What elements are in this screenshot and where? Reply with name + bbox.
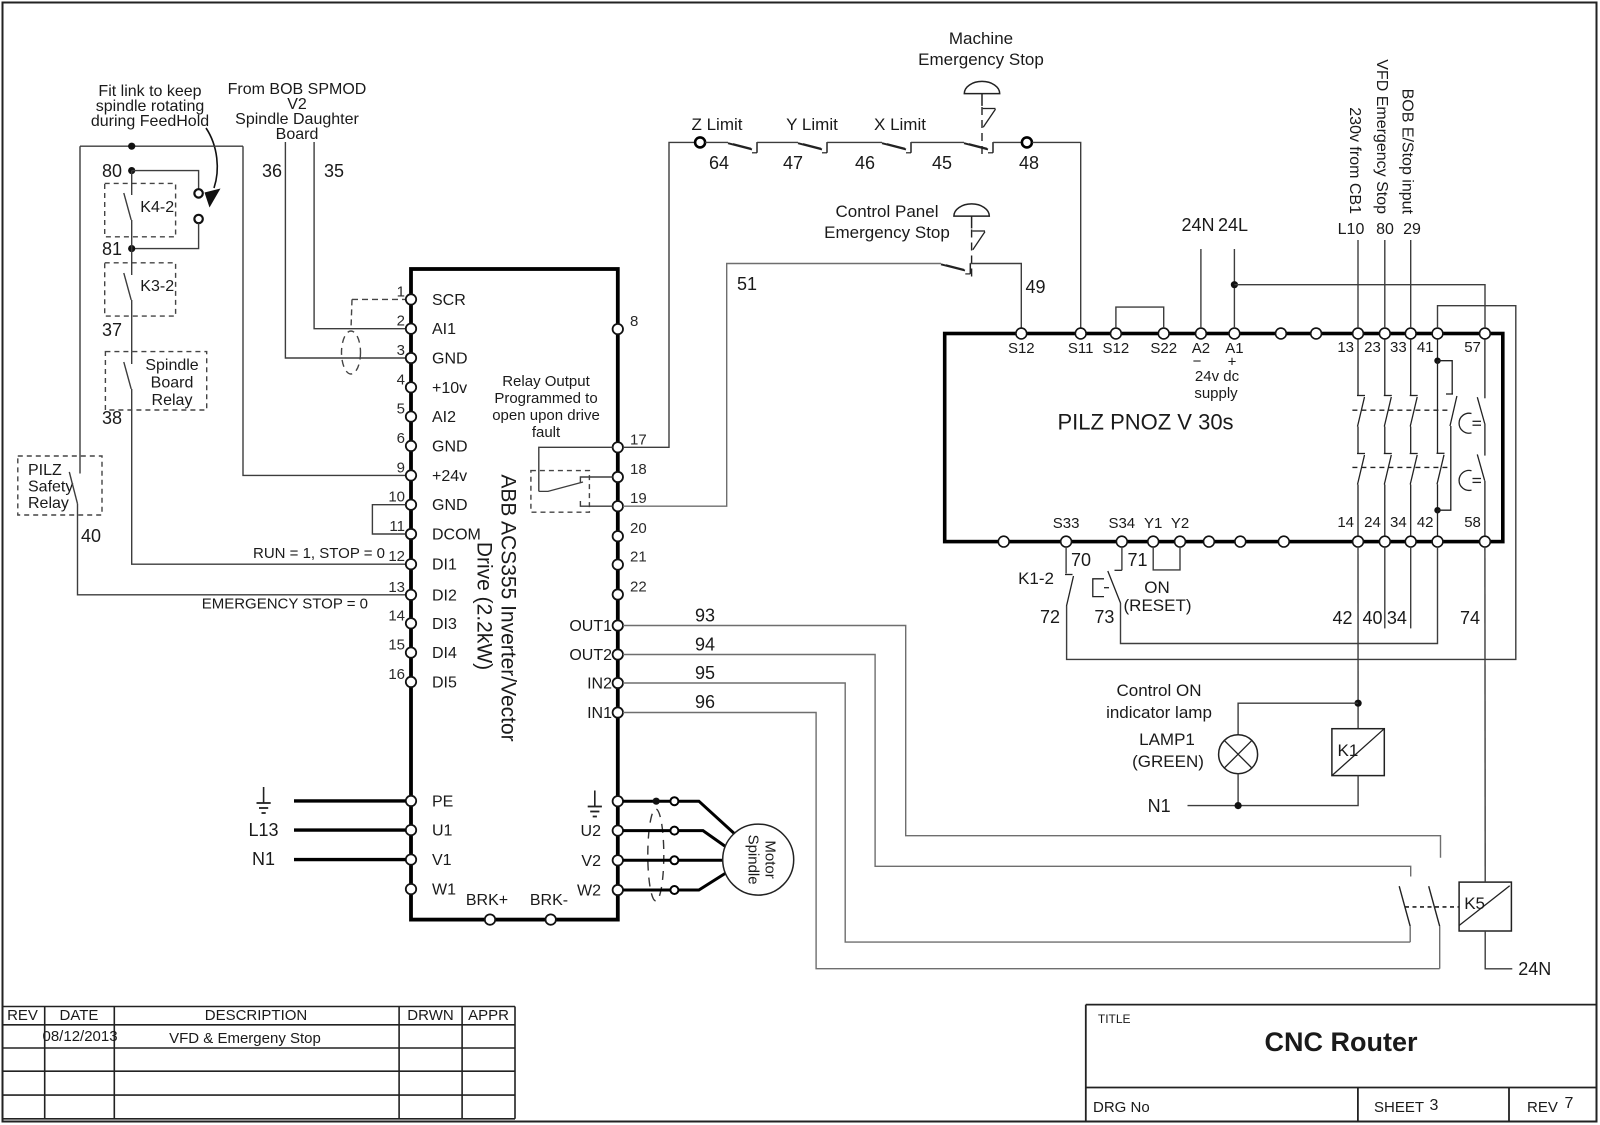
wire pin18 fixed contact xyxy=(580,477,612,482)
wire K5 to 24N xyxy=(1485,931,1512,969)
terminal unused bottom xyxy=(1235,536,1246,547)
wire terminal 14 to K1 xyxy=(1357,547,1359,729)
svg-text:+10v: +10v xyxy=(432,380,467,397)
svg-text:K3-2: K3-2 xyxy=(140,278,174,295)
svg-text:3: 3 xyxy=(397,342,405,359)
svg-text:AI1: AI1 xyxy=(432,321,456,338)
lamp LAMP1 xyxy=(1219,735,1258,774)
svg-text:21: 21 xyxy=(630,549,647,566)
relay contact K4-2 box xyxy=(105,183,176,236)
relay contact Spindle Board Relay box xyxy=(105,352,206,410)
svg-text:Drive (2.2kW): Drive (2.2kW) xyxy=(472,542,495,670)
wire PE2 to motor junction xyxy=(623,800,671,803)
svg-text:24v dc: 24v dc xyxy=(1195,368,1240,385)
svg-text:Relay: Relay xyxy=(152,392,193,409)
terminal 23 xyxy=(1379,328,1390,339)
terminal S12 xyxy=(1111,328,1122,339)
connector ring ground xyxy=(670,797,678,805)
svg-text:V2: V2 xyxy=(581,853,601,870)
svg-text:94: 94 xyxy=(695,635,715,655)
terminal Y2 xyxy=(1175,536,1186,547)
svg-text:PE: PE xyxy=(432,793,453,810)
svg-text:BRK-: BRK- xyxy=(530,892,568,909)
contact machine e-stop 45 xyxy=(964,143,988,149)
svg-text:40: 40 xyxy=(1362,608,1382,628)
wire terminal 34 stub xyxy=(1410,547,1412,629)
svg-text:ABB ACS355 Inverter/Vector: ABB ACS355 Inverter/Vector xyxy=(497,474,520,741)
wire terminal 24 stub xyxy=(1384,547,1386,629)
svg-text:24N: 24N xyxy=(1181,215,1214,235)
pin PE2 ground xyxy=(613,796,623,806)
machine e-stop stem xyxy=(981,94,983,106)
svg-text:22: 22 xyxy=(630,579,647,596)
svg-text:DI1: DI1 xyxy=(432,557,457,574)
svg-text:Y2: Y2 xyxy=(1171,515,1189,532)
contact K5 left xyxy=(1399,886,1410,926)
svg-text:73: 73 xyxy=(1094,607,1114,627)
pin IN2 xyxy=(613,678,623,688)
wire 35 to AI1 pin2 xyxy=(314,142,406,329)
wire N1 to V1 xyxy=(294,858,406,861)
svg-text:64: 64 xyxy=(709,153,729,173)
svg-text:18: 18 xyxy=(630,461,647,478)
wire 73 to terminal 42 xyxy=(1121,547,1438,644)
svg-text:1: 1 xyxy=(397,283,405,300)
pin 15 DI4 xyxy=(406,647,416,657)
wire 29 to 33 xyxy=(1410,240,1412,328)
pin 9 +24v xyxy=(406,470,416,480)
svg-text:K1-2: K1-2 xyxy=(1018,569,1054,588)
pushbutton ON RESET actuator xyxy=(1093,579,1104,597)
contact Z limit xyxy=(705,141,728,143)
svg-text:DCOM: DCOM xyxy=(432,527,481,544)
svg-text:SCR: SCR xyxy=(432,292,466,309)
node 81 xyxy=(128,245,135,252)
svg-text:DI2: DI2 xyxy=(432,587,457,604)
contact column 1410.7 row1+row2 xyxy=(1410,339,1412,396)
wire L13 to U1 xyxy=(294,828,406,831)
svg-text:X Limit: X Limit xyxy=(874,115,926,134)
svg-text:Y1: Y1 xyxy=(1144,515,1162,532)
contact 57-58 delayed row1 xyxy=(1484,339,1486,398)
pin 13 DI2 xyxy=(406,590,416,600)
earth ground symbol right xyxy=(594,791,596,807)
wire to terminal 48 xyxy=(993,141,1022,143)
connector ring U2 xyxy=(670,827,678,835)
relay coil K5 xyxy=(1459,882,1511,931)
wire lamp top xyxy=(1238,703,1358,735)
wire W2 to motor xyxy=(678,871,729,890)
machine e-stop dashed plunger xyxy=(981,107,983,159)
svg-text:U2: U2 xyxy=(581,823,602,840)
terminal 13 xyxy=(1353,328,1364,339)
terminal S12 xyxy=(1016,328,1027,339)
svg-text:indicator lamp: indicator lamp xyxy=(1106,703,1212,722)
contact K4-2 xyxy=(131,171,133,195)
svg-text:2: 2 xyxy=(397,313,405,330)
wire lamp bottom xyxy=(1237,774,1239,806)
contact column 1384.8 row1+row2 xyxy=(1384,339,1386,396)
wire X to machine stop xyxy=(911,141,964,143)
svg-text:+24v: +24v xyxy=(432,468,467,485)
svg-text:47: 47 xyxy=(783,153,803,173)
svg-text:33: 33 xyxy=(1390,339,1407,356)
connector ring V2 xyxy=(670,856,678,864)
svg-text:Motor: Motor xyxy=(762,840,779,878)
svg-text:U1: U1 xyxy=(432,823,453,840)
terminal S34 xyxy=(1116,536,1127,547)
wire 96 IN1 xyxy=(623,713,1440,969)
terminal unused bottom xyxy=(1204,536,1215,547)
svg-text:SHEET: SHEET xyxy=(1374,1099,1424,1116)
wire A2 to 24N xyxy=(1200,249,1202,328)
wire Y to X xyxy=(827,141,882,143)
svg-text:REV: REV xyxy=(1527,1099,1558,1116)
pin U2 xyxy=(613,825,623,835)
svg-text:PILZ PNOZ V 30s: PILZ PNOZ V 30s xyxy=(1058,410,1234,435)
svg-text:Spindle: Spindle xyxy=(745,835,762,885)
svg-text:ON: ON xyxy=(1144,578,1170,597)
wire A1 to 24L xyxy=(1233,249,1235,328)
wire A1 to terminal 57 xyxy=(1234,285,1485,329)
svg-text:41: 41 xyxy=(1417,339,1434,356)
svg-text:45: 45 xyxy=(932,153,952,173)
link terminal lower xyxy=(194,215,202,223)
wire ground to motor xyxy=(678,801,737,836)
wire 72 to terminal 41 loop xyxy=(1067,306,1516,660)
svg-text:49: 49 xyxy=(1025,277,1045,297)
svg-text:VFD & Emergeny Stop: VFD & Emergeny Stop xyxy=(169,1030,321,1047)
svg-text:S12: S12 xyxy=(1008,340,1035,357)
limit switch terminal Z xyxy=(695,137,705,147)
wire L10 to 13 xyxy=(1357,240,1359,328)
terminal unused bottom xyxy=(1278,536,1289,547)
earth ground symbol left xyxy=(263,787,265,803)
svg-text:95: 95 xyxy=(695,663,715,683)
pin 6 GND xyxy=(406,441,416,451)
svg-text:08/12/2013: 08/12/2013 xyxy=(43,1028,118,1045)
junction node at top bus xyxy=(128,143,135,150)
svg-text:81: 81 xyxy=(102,239,122,259)
safety relay PILZ PNOZ V 30s box xyxy=(945,334,1503,542)
contact 41-42 main column xyxy=(1437,339,1439,361)
contact X limit xyxy=(882,143,906,149)
VFD drive U1 ABB ACS355 box xyxy=(411,269,618,920)
svg-text:DRWN: DRWN xyxy=(407,1007,453,1024)
pin V1 xyxy=(406,854,416,864)
terminal 33 xyxy=(1405,328,1416,339)
terminal 41 xyxy=(1432,328,1443,339)
svg-text:42: 42 xyxy=(1332,608,1352,628)
svg-text:51: 51 xyxy=(737,274,757,294)
svg-text:9: 9 xyxy=(397,459,405,476)
pin 18 xyxy=(613,472,623,482)
svg-text:38: 38 xyxy=(102,408,122,428)
wire +24v feed vertical xyxy=(243,146,406,475)
svg-text:Board: Board xyxy=(276,126,319,143)
svg-text:GND: GND xyxy=(432,497,468,514)
svg-text:S12: S12 xyxy=(1103,340,1130,357)
relay contact PILZ Safety Relay box xyxy=(18,456,102,515)
jumper bracket GND-DCOM xyxy=(372,505,405,534)
svg-text:RUN = 1, STOP = 0: RUN = 1, STOP = 0 xyxy=(253,545,385,562)
svg-text:74: 74 xyxy=(1460,608,1480,628)
pin OUT1 xyxy=(613,620,623,630)
svg-text:36: 36 xyxy=(262,161,282,181)
svg-text:DRG No: DRG No xyxy=(1093,1099,1150,1116)
svg-text:DESCRIPTION: DESCRIPTION xyxy=(205,1007,308,1024)
svg-text:3: 3 xyxy=(1430,1097,1439,1114)
terminal 42 xyxy=(1432,536,1443,547)
wire pin17 to limit chain xyxy=(623,142,695,447)
svg-text:93: 93 xyxy=(695,606,715,626)
svg-text:6: 6 xyxy=(397,430,405,447)
svg-text:17: 17 xyxy=(630,431,647,448)
svg-text:during FeedHold: during FeedHold xyxy=(91,113,209,130)
svg-text:DI3: DI3 xyxy=(432,616,457,633)
svg-text:GND: GND xyxy=(432,351,468,368)
connector ring W2 xyxy=(670,886,678,894)
svg-text:13: 13 xyxy=(1337,339,1354,356)
svg-text:BRK+: BRK+ xyxy=(466,892,508,909)
svg-text:IN1: IN1 xyxy=(587,705,612,722)
junction lamp branch xyxy=(1355,700,1362,707)
control e-stop stem xyxy=(971,216,973,228)
svg-text:Relay: Relay xyxy=(28,495,69,512)
svg-text:Emergency Stop: Emergency Stop xyxy=(824,223,950,242)
title area grid xyxy=(1085,1005,1087,1122)
wire U2 to ring xyxy=(623,829,670,832)
junction A1 xyxy=(1231,281,1238,288)
terminal S33 xyxy=(1061,536,1072,547)
contact 41-42 bracket xyxy=(1438,361,1453,394)
wire S34 down xyxy=(1121,547,1123,570)
pin 14 DI3 xyxy=(406,618,416,628)
mechanical link dashes K5 xyxy=(1405,906,1459,908)
svg-text:35: 35 xyxy=(324,161,344,181)
pin 21 xyxy=(613,559,623,569)
terminal 34 xyxy=(1405,536,1416,547)
svg-text:24: 24 xyxy=(1364,514,1381,531)
svg-text:REV: REV xyxy=(7,1007,38,1024)
svg-text:37: 37 xyxy=(102,320,122,340)
pin 11 DCOM xyxy=(406,529,416,539)
wire 80 to 23 xyxy=(1384,240,1386,328)
wire S33 down xyxy=(1065,547,1067,574)
svg-text:Emergency Stop: Emergency Stop xyxy=(918,50,1044,69)
wire W2 to ring xyxy=(623,889,670,892)
svg-text:Control Panel: Control Panel xyxy=(835,202,938,221)
terminal A1 xyxy=(1229,328,1240,339)
pin 20 xyxy=(613,531,623,541)
relay coil K1 xyxy=(1332,729,1384,776)
svg-text:K4-2: K4-2 xyxy=(140,199,174,216)
svg-text:Relay Output: Relay Output xyxy=(502,373,590,390)
svg-text:24L: 24L xyxy=(1218,215,1248,235)
cable shield ellipse xyxy=(342,331,361,374)
wire Z to Y xyxy=(757,141,798,143)
svg-text:46: 46 xyxy=(855,153,875,173)
link terminal upper xyxy=(194,189,202,197)
pin W2 xyxy=(613,885,623,895)
svg-text:Machine: Machine xyxy=(949,29,1013,48)
contact control e-stop 49 xyxy=(941,264,965,270)
pin 10 GND xyxy=(406,500,416,510)
terminal unused top xyxy=(1311,328,1322,339)
svg-text:Z Limit: Z Limit xyxy=(692,115,743,134)
wire 51 xyxy=(623,264,941,507)
wire left vertical to PILZ safety relay xyxy=(79,146,81,473)
pin 5 AI2 xyxy=(406,411,416,421)
svg-text:APPR: APPR xyxy=(468,1007,509,1024)
terminal unused top xyxy=(1276,328,1287,339)
svg-text:14: 14 xyxy=(1337,514,1354,531)
wire V2 to ring xyxy=(623,859,670,862)
svg-text:23: 23 xyxy=(1364,339,1381,356)
svg-text:10: 10 xyxy=(388,489,405,506)
pin 2 AI1 xyxy=(406,324,416,334)
shield drain dashed wire to SCR pin1 xyxy=(352,298,406,300)
svg-text:13: 13 xyxy=(388,579,405,596)
svg-text:40: 40 xyxy=(81,526,101,546)
svg-text:4: 4 xyxy=(397,371,405,388)
svg-text:TITLE: TITLE xyxy=(1098,1012,1131,1026)
control e-stop mushroom head xyxy=(954,204,989,216)
terminal S22 xyxy=(1158,328,1169,339)
svg-text:EMERGENCY STOP = 0: EMERGENCY STOP = 0 xyxy=(202,596,368,613)
wire 94 OUT2 xyxy=(623,655,1411,877)
svg-text:open upon drive: open upon drive xyxy=(492,407,600,424)
terminal 14 xyxy=(1353,536,1364,547)
svg-text:S22: S22 xyxy=(1150,340,1177,357)
svg-text:OUT2: OUT2 xyxy=(569,647,612,664)
svg-text:W2: W2 xyxy=(577,883,601,900)
pin IN1 xyxy=(613,707,623,717)
wire 93 OUT1 xyxy=(623,626,1441,858)
junction N1 xyxy=(1235,802,1242,809)
wire terminal 58 to K5 xyxy=(1484,547,1486,882)
terminal S11 xyxy=(1075,328,1086,339)
svg-text:230v from CB1: 230v from CB1 xyxy=(1346,107,1363,214)
jumper S12-S22 xyxy=(1116,307,1164,328)
junction motor shield xyxy=(653,798,660,805)
machine e-stop mushroom head xyxy=(964,81,999,93)
svg-text:57: 57 xyxy=(1464,339,1481,356)
svg-text:L10: L10 xyxy=(1338,221,1365,238)
svg-text:80: 80 xyxy=(1376,221,1394,238)
terminal 57 xyxy=(1480,328,1491,339)
svg-text:PILZ: PILZ xyxy=(28,462,62,479)
wire pin19 fixed contact xyxy=(580,501,612,506)
svg-text:IN2: IN2 xyxy=(587,676,612,693)
relay contact K3-2 box xyxy=(105,263,176,316)
svg-text:29: 29 xyxy=(1403,221,1421,238)
svg-text:Spindle: Spindle xyxy=(145,357,198,374)
machine e-stop operator mark xyxy=(983,108,996,110)
svg-text:Safety: Safety xyxy=(28,479,73,496)
svg-text:42: 42 xyxy=(1417,514,1434,531)
pin U1 xyxy=(406,825,416,835)
pin W1 xyxy=(406,884,416,894)
cable shield ellipse motor xyxy=(648,809,664,901)
terminal A2 xyxy=(1196,328,1207,339)
svg-text:(GREEN): (GREEN) xyxy=(1132,752,1204,771)
svg-text:VFD Emergency Stop: VFD Emergency Stop xyxy=(1373,59,1390,214)
svg-text:S33: S33 xyxy=(1053,515,1080,532)
contact PILZ Safety Relay xyxy=(69,472,77,504)
wire K1 bottom to N1 xyxy=(1188,776,1359,806)
wire U2 to motor xyxy=(678,831,729,849)
svg-text:71: 71 xyxy=(1128,550,1148,570)
control e-stop operator mark xyxy=(972,230,985,232)
pin 3 GND xyxy=(406,353,416,363)
svg-text:V1: V1 xyxy=(432,852,452,869)
pin 4 +10v xyxy=(406,382,416,392)
pin 1 SCR xyxy=(406,294,416,304)
pin 16 DI5 xyxy=(406,677,416,687)
svg-text:Control ON: Control ON xyxy=(1116,681,1201,700)
contact K1-2 xyxy=(1065,574,1073,576)
svg-text:S11: S11 xyxy=(1068,340,1094,357)
pin OUT2 xyxy=(613,649,623,659)
svg-text:fault: fault xyxy=(532,424,561,441)
svg-text:N1: N1 xyxy=(1148,796,1171,816)
svg-text:96: 96 xyxy=(695,692,715,712)
svg-text:20: 20 xyxy=(630,520,647,537)
wire node80 to link terminal xyxy=(132,171,199,190)
pin 17 xyxy=(613,442,623,452)
svg-text:5: 5 xyxy=(397,401,405,418)
mechanical link dashes row2 xyxy=(1352,466,1448,468)
svg-text:58: 58 xyxy=(1464,514,1481,531)
svg-text:DI4: DI4 xyxy=(432,645,457,662)
svg-text:DATE: DATE xyxy=(60,1007,99,1024)
pin V2 xyxy=(613,855,623,865)
svg-text:W1: W1 xyxy=(432,882,456,899)
pin PE xyxy=(406,796,416,806)
svg-text:12: 12 xyxy=(388,548,405,565)
pin 19 xyxy=(613,501,623,511)
terminal Y1 xyxy=(1148,536,1159,547)
svg-text:S34: S34 xyxy=(1108,515,1135,532)
wire link terminal to node 81 xyxy=(132,223,199,248)
wire top-left bus xyxy=(80,145,243,147)
svg-text:80: 80 xyxy=(102,161,122,181)
svg-text:L13: L13 xyxy=(248,820,278,840)
svg-text:70: 70 xyxy=(1071,550,1091,570)
contact Y limit xyxy=(798,143,822,149)
svg-text:Programmed to: Programmed to xyxy=(494,390,597,407)
wire 49 to S12 xyxy=(970,264,1021,329)
svg-text:8: 8 xyxy=(630,313,638,330)
svg-text:19: 19 xyxy=(630,490,647,507)
wire 95 IN2 xyxy=(623,683,1410,942)
wire 36 to GND pin3 xyxy=(285,142,405,358)
svg-text:7: 7 xyxy=(1565,1095,1574,1112)
terminal 58 xyxy=(1480,536,1491,547)
terminal unused bottom xyxy=(998,536,1009,547)
contact Spindle Board Relay xyxy=(131,352,133,364)
wire 48 to S11 xyxy=(1032,142,1081,328)
contact ON RESET xyxy=(1115,569,1122,571)
node 80 xyxy=(128,167,135,174)
svg-text:Y Limit: Y Limit xyxy=(786,115,838,134)
pin 12 DI1 xyxy=(406,559,416,569)
pin BRK- xyxy=(546,914,556,924)
terminal 24 xyxy=(1379,536,1390,547)
svg-text:K5: K5 xyxy=(1464,894,1485,913)
svg-text:24N: 24N xyxy=(1518,959,1551,979)
